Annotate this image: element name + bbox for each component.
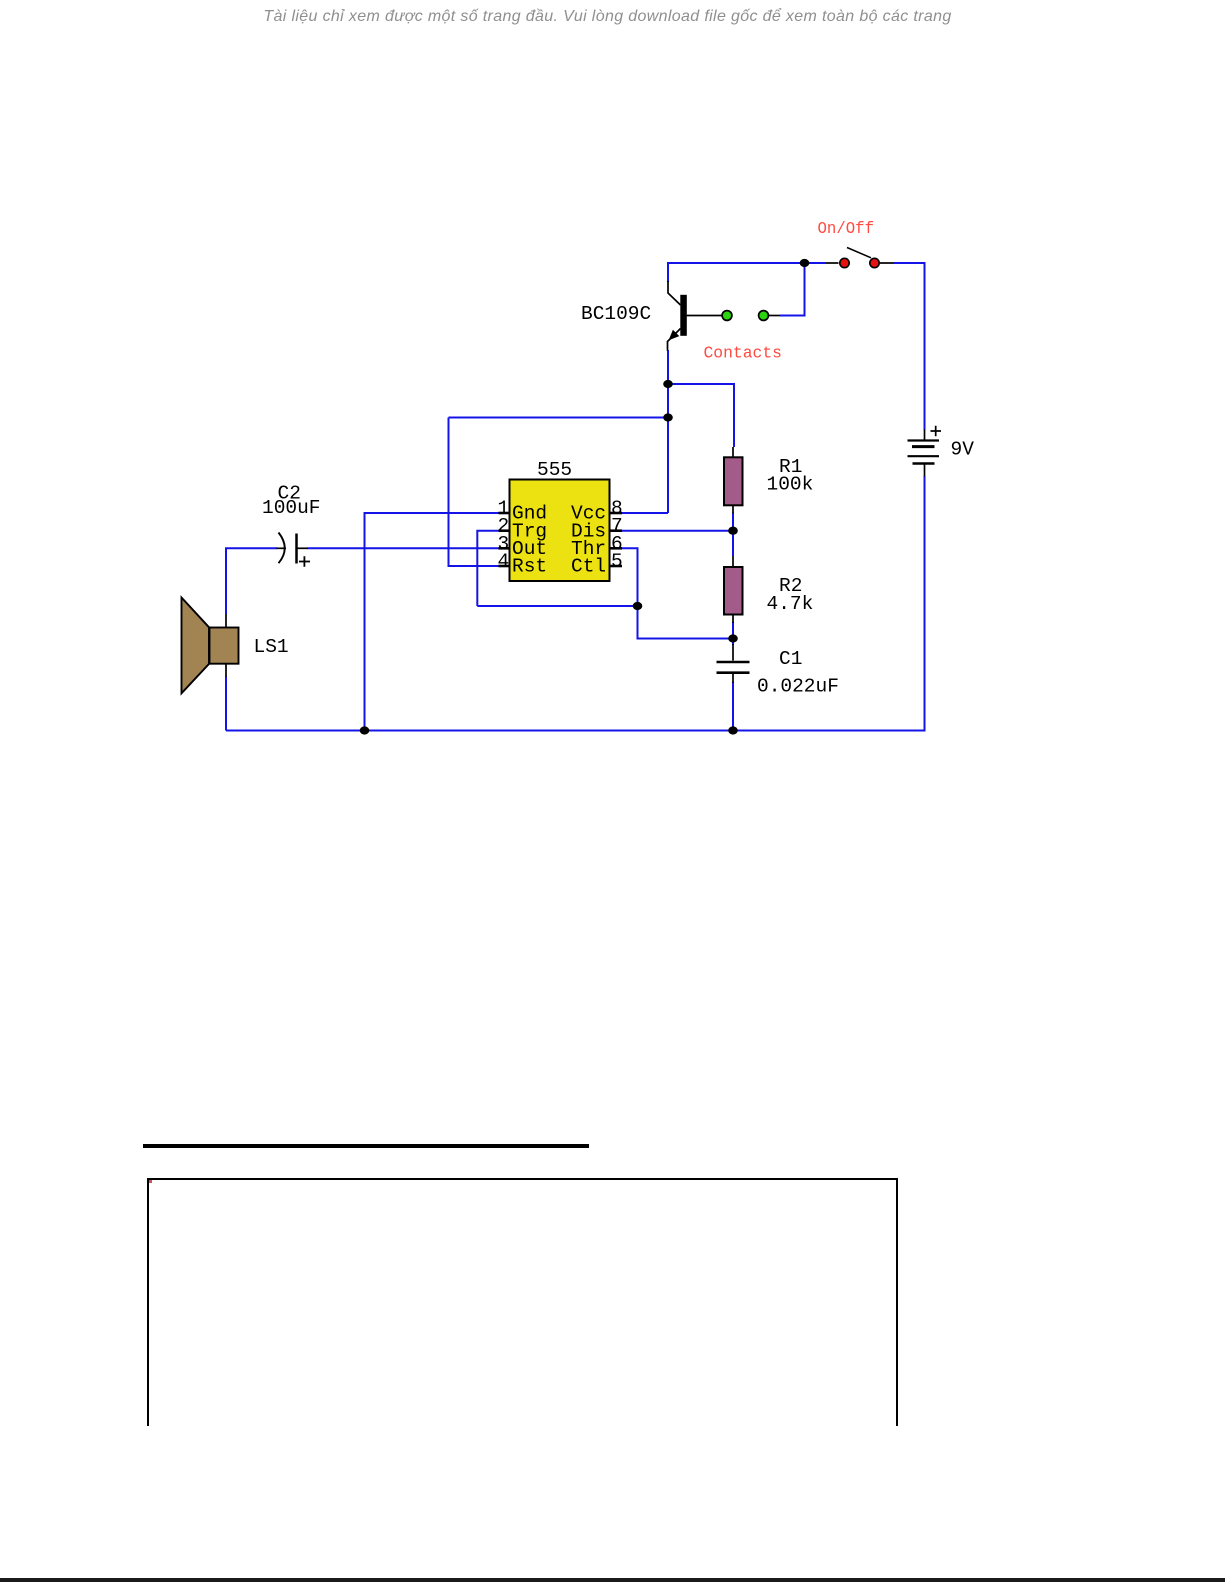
transistor Q1 collector lead <box>668 281 681 305</box>
node G junction dot <box>728 726 738 734</box>
pin 6 stub <box>610 547 623 550</box>
contact dot left (green) <box>722 311 732 321</box>
wire: green dot 2 lead <box>769 315 780 317</box>
pin 2 stub <box>499 529 510 532</box>
contact dot right (green) <box>759 311 769 321</box>
pin 8 stub <box>610 512 623 515</box>
svg-text:100k: 100k <box>767 474 814 496</box>
battery B1 plus sign <box>931 426 942 437</box>
wire: collector top horizontal to switch <box>667 262 826 264</box>
wire: Gnd pin 1 to bottom rail <box>365 513 500 731</box>
resistor R2 lead top <box>732 556 734 567</box>
wire: node D horizontal <box>477 605 637 607</box>
resistor R1 lead bottom <box>732 505 734 513</box>
node H junction dot <box>360 726 370 734</box>
battery B1 plate 3 long <box>908 455 940 457</box>
battery B1 plate 4 short <box>913 462 935 465</box>
capacitor C2 lead left <box>277 547 287 549</box>
capacitor C1 lead bottom <box>732 674 734 683</box>
node E junction dot <box>728 634 738 642</box>
wire: switch to right rail and down to battery + <box>894 263 925 430</box>
node F junction dot <box>728 527 738 535</box>
battery B1 plate 1 long <box>908 439 940 441</box>
resistor R1 body <box>724 457 743 505</box>
svg-text:Ctl: Ctl <box>571 556 606 578</box>
capacitor C1 plate top <box>717 661 750 664</box>
wire: R2 bottom to node E <box>732 622 734 645</box>
resistor R1 lead top <box>732 447 734 457</box>
pin 7 stub <box>610 529 623 532</box>
svg-text:0.022uF: 0.022uF <box>757 676 839 698</box>
battery B1 lead top <box>924 430 926 441</box>
svg-text:BC109C: BC109C <box>581 303 651 325</box>
wire: junction C horizontal (Rst net) <box>449 417 669 419</box>
frame: preview box left border <box>147 1178 149 1426</box>
svg-text:4: 4 <box>498 551 510 573</box>
wire: Vcc pin 8 <box>622 512 668 514</box>
transistor Q1 base bar <box>680 295 687 336</box>
node C junction dot <box>663 413 673 421</box>
resistor R2 body <box>724 567 743 615</box>
svg-text:5: 5 <box>611 551 623 573</box>
speaker LS1 body <box>210 628 239 664</box>
rule: bottom page divider <box>0 1578 1225 1582</box>
wire: R1 bottom through node F to R2 top <box>732 513 734 557</box>
wire: C2 left to speaker top <box>226 548 277 614</box>
svg-text:4.7k: 4.7k <box>767 593 814 615</box>
icon: broken image marker <box>149 1180 152 1183</box>
wire: Thr pin 6 right and down to node D <box>622 548 638 606</box>
frame: preview box top border <box>147 1178 898 1180</box>
rule: thick underline <box>143 1144 589 1148</box>
svg-text:Rst: Rst <box>512 556 547 578</box>
svg-text:555: 555 <box>537 459 572 481</box>
capacitor C2 straight plate <box>295 534 298 564</box>
speaker LS1 lead bottom <box>225 664 227 677</box>
caption: preview notice text <box>0 8 1215 26</box>
svg-text:9V: 9V <box>951 439 975 461</box>
switch S1 arm <box>847 248 871 258</box>
wire: collector vertical <box>667 263 669 282</box>
switch S1 throw dot (red) <box>870 258 879 267</box>
switch S1 pole dot (red) <box>840 258 849 267</box>
capacitor C1 plate bottom <box>717 671 750 674</box>
wire: Trg pin 2 down to node D <box>477 531 499 606</box>
pin 3 stub <box>499 547 510 550</box>
resistor R2 lead bottom <box>732 615 734 624</box>
capacitor C2 lead right <box>297 547 309 549</box>
svg-text:100uF: 100uF <box>262 497 321 519</box>
frame: preview box right border <box>896 1178 898 1426</box>
wire: emitter down to Vcc level <box>667 350 669 513</box>
speaker LS1 cone <box>182 598 210 694</box>
svg-text:C1: C1 <box>779 648 802 670</box>
pin 1 stub <box>499 512 510 515</box>
transistor Q1 base lead <box>687 315 722 317</box>
wire: speaker bottom to bottom rail <box>225 677 227 731</box>
transistor Q1 emitter arrow <box>669 330 680 341</box>
battery B1 plate 2 short <box>912 445 935 448</box>
node B junction dot <box>663 380 673 388</box>
capacitor C2 curved plate <box>279 533 285 564</box>
svg-text:Contacts: Contacts <box>704 344 783 363</box>
wire: Out pin 3 to C2 <box>308 547 500 549</box>
transistor Q1 emitter lead <box>668 329 681 351</box>
node D junction dot <box>633 602 643 610</box>
switch S1 lead left <box>826 262 839 264</box>
wire: contacts right dot up to node A <box>780 263 805 316</box>
wire: junction B right then down to R1 <box>668 384 734 447</box>
node A junction dot <box>800 259 810 267</box>
wire: Rst vertical to pin 4 <box>449 418 500 567</box>
switch S1 lead right <box>880 262 894 264</box>
speaker LS1 lead top <box>225 614 227 628</box>
wire: battery - down, bottom rail to speaker <box>226 476 925 731</box>
capacitor C1 lead top <box>732 644 734 661</box>
svg-text:LS1: LS1 <box>254 636 289 658</box>
pin 5 stub <box>610 565 623 568</box>
pin 4 stub <box>499 565 510 568</box>
wire: node D to node E <box>638 606 734 639</box>
battery B1 lead bottom <box>924 465 926 477</box>
wire: Dis pin 7 to node F <box>622 530 733 532</box>
svg-text:On/Off: On/Off <box>818 219 875 238</box>
wire: C1 bottom to bottom rail <box>732 682 734 731</box>
555 IC body U1 <box>510 480 610 582</box>
capacitor C2 plus sign <box>299 556 310 566</box>
